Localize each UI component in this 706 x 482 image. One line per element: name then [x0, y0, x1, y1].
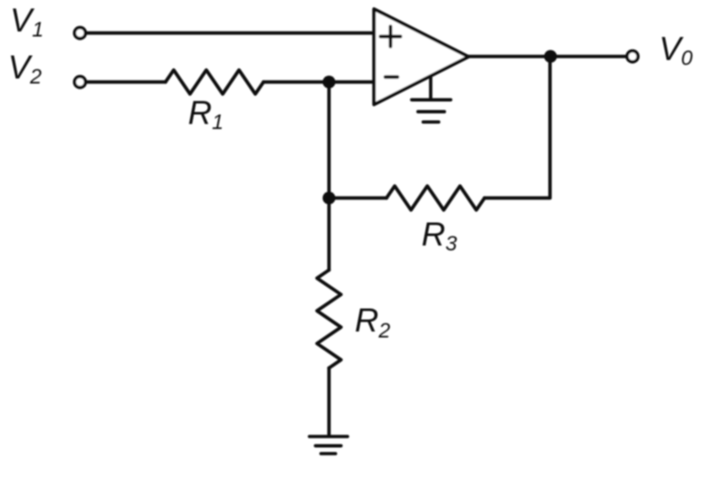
- output node junction dot: [544, 50, 557, 63]
- wire node A to node B: [327, 82, 330, 198]
- svg-text:V0: V0: [659, 30, 693, 70]
- node A junction dot: [323, 76, 336, 89]
- svg-text:V2: V2: [8, 49, 42, 89]
- svg-text:R1: R1: [188, 94, 224, 134]
- wire R3 to output net: [485, 56, 551, 198]
- svg-text:R3: R3: [422, 215, 458, 255]
- node B junction dot: [323, 192, 336, 205]
- wire node B to resistor R2: [327, 198, 330, 270]
- ground at R2: [310, 437, 348, 454]
- wire op-amp output to terminal V0: [468, 55, 626, 58]
- wire V2 input to resistor R1: [88, 80, 166, 83]
- terminal V1: [75, 28, 86, 39]
- resistor R1: [166, 70, 264, 94]
- op-amp U1: [374, 9, 469, 105]
- wire R1 to node A and op-amp inverting input: [264, 80, 375, 83]
- wire R2 to ground: [327, 368, 330, 436]
- op-amp minus pin label: [385, 75, 397, 78]
- wire node B to resistor R3: [329, 196, 387, 199]
- terminal V2: [75, 77, 86, 88]
- svg-text:V1: V1: [10, 2, 44, 42]
- wire V1 input to op-amp non-inverting input: [88, 31, 375, 34]
- terminal V0: [627, 51, 638, 62]
- ground at op-amp: [412, 77, 451, 123]
- op-amp plus pin label: [381, 27, 401, 47]
- resistor R3: [387, 186, 485, 210]
- resistor R2: [317, 270, 341, 368]
- svg-text:R2: R2: [355, 301, 391, 342]
